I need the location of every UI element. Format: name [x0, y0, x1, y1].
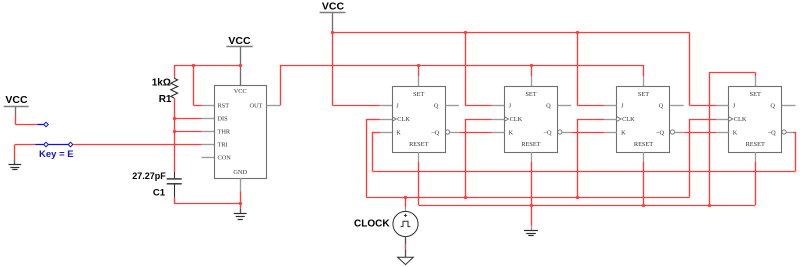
label Key = E [39, 149, 74, 160]
svg-text:CLK: CLK [622, 116, 635, 123]
svg-text:SET: SET [525, 91, 536, 98]
wire U2.~Q to U3.K [459, 132, 492, 134]
pin U4.CLK stub and edge triangle [604, 117, 621, 122]
junction reset rail at U4.RESET [642, 204, 645, 207]
pin U5.SET stub [755, 76, 757, 86]
wire U4.RESET down to rail [643, 162, 645, 205]
svg-text:~Q: ~Q [768, 129, 776, 136]
pin U5.RESET stub [755, 152, 757, 162]
svg-text:VCC: VCC [234, 88, 247, 95]
svg-text:~Q: ~Q [544, 129, 552, 136]
svg-text:Q: Q [546, 103, 551, 110]
wire OUT bus to SET pins [280, 65, 644, 67]
svg-text:1kΩ: 1kΩ [152, 78, 171, 89]
svg-text:SET: SET [750, 91, 761, 98]
wire ~Q U5 to feedback rail [793, 132, 796, 171]
svg-text:RESET: RESET [746, 141, 765, 148]
wire U2.K drop [372, 132, 379, 171]
switch J1 open throw contact [44, 122, 49, 127]
pin U5.~Q bubble and stub [782, 130, 793, 134]
svg-text:VCC: VCC [322, 1, 345, 13]
wire OUT bus to U3.SET [531, 65, 533, 76]
svg-text:SET: SET [413, 91, 424, 98]
wire to U1.DIS [174, 118, 201, 120]
pin U1.TRI stub [202, 144, 215, 146]
wire U3.RESET down to ground [531, 162, 533, 226]
ground arrow (under CLOCK) [398, 249, 414, 265]
wire U2.RESET down to rail [418, 162, 420, 205]
junction clock rail at U3.CLK [464, 196, 467, 199]
wire U3.~Q to U4.K [571, 132, 604, 134]
label R1 [159, 94, 172, 105]
pin U3.CLK stub and edge triangle [492, 117, 509, 122]
flip-flop U5 JK body [729, 87, 782, 153]
junction OUT bus at U2.SET [417, 64, 420, 67]
wire ground to switch pole [15, 144, 35, 146]
wire VCC to switch throw [15, 115, 37, 125]
wire clock rail to CLOCK source [405, 197, 407, 207]
pin U1.DIS stub [202, 118, 215, 120]
svg-text:K: K [733, 129, 738, 136]
flip-flop U3 JK body [505, 87, 558, 153]
pin U5.J stub [716, 105, 729, 107]
wire junction to ground [240, 204, 242, 209]
capacitor C1 [167, 172, 182, 197]
svg-text:R1: R1 [159, 94, 172, 105]
pin CLOCK top stub [405, 207, 407, 212]
flip-flop U2 JK body [393, 87, 446, 153]
wire VCC to U4.J [577, 33, 604, 106]
pin U3.SET stub [531, 76, 533, 86]
wire U5.RESET down to rail [755, 162, 757, 205]
pin U2.J stub [380, 105, 393, 107]
pin U1.CON stub (unconnected) [202, 157, 215, 159]
junction OUT bus at U3.SET [530, 64, 533, 67]
ground (under U3) [524, 226, 538, 236]
pin U5.K stub [716, 132, 729, 134]
power VCC symbol (left) [4, 94, 29, 115]
wire CLOCK to ground arrow [405, 244, 407, 249]
pin CLOCK bottom stub [405, 237, 407, 245]
pin U2.K stub [380, 132, 393, 134]
ground (under U1) [234, 208, 247, 219]
pin U3.K stub [492, 132, 505, 134]
svg-text:TRI: TRI [218, 142, 228, 149]
junction at VCC pin of U1 [239, 64, 242, 67]
junction clock rail at CLOCK source [404, 196, 407, 199]
power VCC symbol (top) [320, 1, 346, 33]
wire VCC to U2.J [333, 33, 380, 106]
wire U2.CLK drop [366, 119, 379, 197]
svg-text:SET: SET [638, 91, 649, 98]
ground (switch pole side) [9, 145, 22, 170]
wire U5.SET to reset rail [709, 72, 755, 205]
svg-text:Q: Q [659, 103, 664, 110]
label CLOCK [354, 219, 390, 230]
pin U2.CLK stub and edge triangle [380, 117, 397, 122]
svg-text:27.27pF: 27.27pF [132, 171, 166, 181]
svg-text:Q: Q [770, 103, 775, 110]
pin U3.J stub [492, 105, 505, 107]
pin U1.GND stub [240, 178, 242, 191]
svg-text:RESET: RESET [409, 141, 428, 148]
junction R1-DIS [173, 117, 176, 120]
resistor R1 [171, 65, 178, 172]
svg-text:Key = E: Key = E [39, 149, 74, 160]
junction at RST drop [192, 64, 195, 67]
svg-text:RESET: RESET [521, 141, 540, 148]
svg-text:RESET: RESET [634, 141, 653, 148]
label 27.27pF [132, 171, 166, 181]
svg-text:~Q: ~Q [656, 129, 664, 136]
junction C1/GND/ground [239, 202, 242, 205]
pin U4.Q stub (unconnected) [670, 105, 684, 107]
pin U1.RST stub [202, 105, 215, 107]
svg-text:RST: RST [218, 103, 230, 110]
wire switch throw blue segment [38, 124, 44, 126]
svg-text:CLOCK: CLOCK [354, 219, 390, 230]
wire to U1.THR [174, 131, 201, 133]
power VCC symbol (over U1) [226, 35, 252, 85]
wire U3.CLK drop [465, 119, 492, 197]
svg-text:C1: C1 [153, 188, 166, 199]
junction VCC bus at J2 drop [464, 31, 467, 34]
svg-text:VCC: VCC [5, 94, 28, 106]
wire OUT bus to U2.SET [418, 65, 420, 76]
pin U2.SET stub [418, 76, 420, 86]
svg-text:Q: Q [434, 103, 439, 110]
op-amp U1 555 timer body [215, 86, 267, 179]
pin U3.~Q bubble and stub [558, 130, 571, 134]
junction reset rail at U3.RESET [530, 204, 533, 207]
svg-text:DIS: DIS [218, 116, 229, 123]
junction VCC bus at J3 drop [576, 31, 579, 34]
pin U5.CLK stub and edge triangle [716, 117, 733, 122]
wire R1 top to VCC pin line [174, 65, 240, 67]
pin U2.Q stub (unconnected) [445, 105, 459, 107]
wire feedback rail [372, 171, 795, 173]
svg-text:THR: THR [218, 129, 231, 136]
pin U4.SET stub [643, 76, 645, 86]
wire clock rail [366, 197, 689, 199]
wire U1.OUT up [280, 65, 282, 106]
svg-text:K: K [396, 129, 401, 136]
wire U1.GND down to junction [240, 192, 242, 204]
junction R1-THR [173, 130, 176, 133]
svg-text:~Q: ~Q [431, 129, 439, 136]
label 1kΩ [152, 78, 171, 89]
svg-text:CLK: CLK [734, 116, 747, 123]
wire U5.CLK drop [690, 119, 717, 197]
label C1 [153, 188, 166, 199]
wire RST drop to U1.RST [194, 65, 202, 106]
pin U1.THR stub [202, 131, 215, 133]
wire reset rail [419, 205, 756, 207]
svg-text:CLK: CLK [510, 116, 523, 123]
clock source V1 [393, 211, 418, 236]
wire OUT bus to U4.SET [643, 65, 645, 76]
pin U4.J stub [604, 105, 617, 107]
svg-text:GND: GND [233, 169, 247, 176]
svg-text:K: K [509, 129, 514, 136]
pin U4.~Q bubble and stub [670, 130, 683, 134]
svg-text:CLK: CLK [397, 116, 410, 123]
pin U3.Q stub (unconnected) [558, 105, 572, 107]
pin U4.RESET stub [643, 152, 645, 162]
svg-text:K: K [621, 129, 626, 136]
pin U2.RESET stub [418, 152, 420, 162]
pin U4.K stub [604, 132, 617, 134]
flip-flop U4 JK body [617, 87, 670, 153]
junction clock rail at U4.CLK [576, 196, 579, 199]
wire VCC to U5.J [690, 33, 717, 106]
svg-text:CON: CON [218, 155, 232, 162]
svg-text:VCC: VCC [228, 35, 251, 47]
wire C1 bottom to GND junction [174, 197, 240, 204]
pin U5.Q stub (unconnected) [782, 105, 796, 107]
switch J1 blade (Key = E) [35, 142, 73, 147]
pin U2.~Q bubble and stub [446, 130, 459, 134]
pin U1.OUT stub [266, 105, 280, 107]
wire U4.~Q to U5.K [684, 132, 716, 134]
wire U4.CLK drop [577, 119, 604, 197]
junction VCC bus at J1 drop [331, 31, 334, 34]
junction reset rail at U5.SET drop [708, 204, 711, 207]
svg-text:OUT: OUT [249, 103, 262, 110]
wire switch to TRI pin of U1 [73, 144, 202, 146]
wire VCC to U3.J [465, 33, 492, 106]
pin U3.RESET stub [531, 152, 533, 162]
wire VCC top bus [333, 32, 690, 34]
